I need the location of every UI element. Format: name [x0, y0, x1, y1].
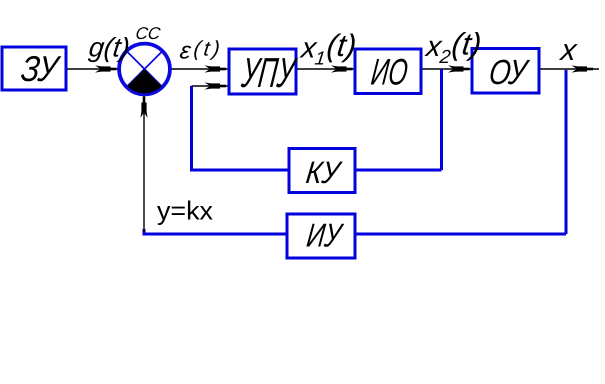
- block ИУ: [287, 214, 355, 258]
- summer CC (comparator): [119, 44, 170, 95]
- svg-text:СС: СС: [135, 24, 163, 43]
- wire: КУ feedback right segment: [355, 169, 442, 172]
- svg-text:ИУ: ИУ: [305, 218, 346, 255]
- wire: ИУ feedback left segment: [144, 229, 287, 234]
- wire: blue tap node down to ИУ feedback level: [565, 70, 568, 234]
- wire: ИО to ОУ: [422, 68, 472, 70]
- wire: summer CC to УПУ: [171, 68, 229, 70]
- arrowhead up into summer CC: [140, 97, 147, 119]
- wire: КУ feedback left segment: [192, 86, 290, 170]
- arrowhead output x: [572, 65, 594, 72]
- block КУ: [289, 149, 355, 193]
- block ОУ: [472, 49, 539, 94]
- wire: ЗУ output to summer CC: [66, 68, 119, 70]
- block ЗУ: [2, 47, 66, 90]
- arrowhead into ОУ: [448, 65, 470, 72]
- wire: УПУ to ИО: [296, 68, 355, 70]
- svg-text:y=kx: y=kx: [157, 196, 213, 226]
- wire: ИУ feedback right segment: [355, 233, 566, 236]
- arrowhead into УПУ pin 2: [205, 82, 227, 89]
- svg-text:ИО: ИО: [369, 51, 410, 93]
- arrowhead into УПУ pin 1: [205, 65, 227, 72]
- wire: vertical feedback into summer CC: [143, 96, 145, 232]
- arrowhead into ИО: [331, 65, 353, 72]
- wire: blue tap node down to КУ feedback level: [440, 69, 443, 170]
- wire: КУ feedback into УПУ pin 2: [192, 85, 230, 87]
- svg-text:УПУ: УПУ: [239, 49, 300, 96]
- wire: ОУ to output x: [539, 68, 599, 70]
- block УПУ: [229, 49, 296, 94]
- arrowhead into summer CC: [95, 65, 117, 72]
- svg-text:g(t): g(t): [87, 32, 131, 63]
- block ИО: [355, 49, 421, 94]
